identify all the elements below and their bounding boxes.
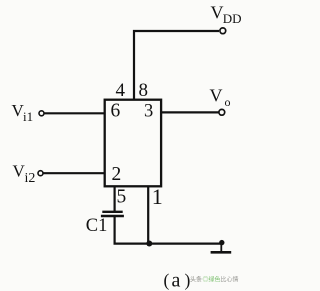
svg-text:a: a <box>172 270 181 291</box>
svg-text:3: 3 <box>144 101 153 121</box>
svg-text:C1: C1 <box>86 216 108 236</box>
wire capacitor to ground rail <box>115 216 222 244</box>
svg-text:DD: DD <box>223 11 242 26</box>
IC U1 body (8-pin timer) <box>105 100 161 187</box>
svg-text:头条◎绿色比心情: 头条◎绿色比心情 <box>190 276 239 284</box>
terminal VDD <box>220 28 226 34</box>
terminal Vo <box>219 109 225 115</box>
svg-text:6: 6 <box>111 100 121 121</box>
svg-text:V: V <box>210 85 223 105</box>
svg-text:(: ( <box>164 270 170 290</box>
svg-text:2: 2 <box>112 164 122 185</box>
junction dot at ground stem <box>219 240 224 245</box>
ground stem <box>220 243 222 252</box>
capacitor C1 bottom plate <box>101 215 124 217</box>
svg-text:1: 1 <box>152 184 163 209</box>
wire pin 1 down to rail <box>147 186 149 243</box>
svg-text:V: V <box>211 3 224 23</box>
svg-text:i1: i1 <box>23 109 33 124</box>
svg-text:5: 5 <box>117 186 127 207</box>
svg-text:o: o <box>225 95 231 109</box>
wire Vi1 to pin 6 <box>44 112 105 114</box>
wire pin 3 to Vo terminal <box>161 111 219 113</box>
wire Vi2 to pin 2 <box>43 172 105 174</box>
svg-text:8: 8 <box>139 80 149 101</box>
junction dot pin1/rail <box>146 241 152 247</box>
svg-text:i2: i2 <box>25 171 36 186</box>
terminal Vi2 <box>38 171 43 176</box>
terminal Vi1 <box>39 111 44 116</box>
svg-text:4: 4 <box>116 80 126 101</box>
capacitor C1 top plate <box>102 211 122 213</box>
wire pin 5 to capacitor <box>113 186 115 212</box>
wire VDD net (pin 8/4 to VDD terminal) <box>134 31 219 100</box>
ground bar <box>211 251 232 254</box>
